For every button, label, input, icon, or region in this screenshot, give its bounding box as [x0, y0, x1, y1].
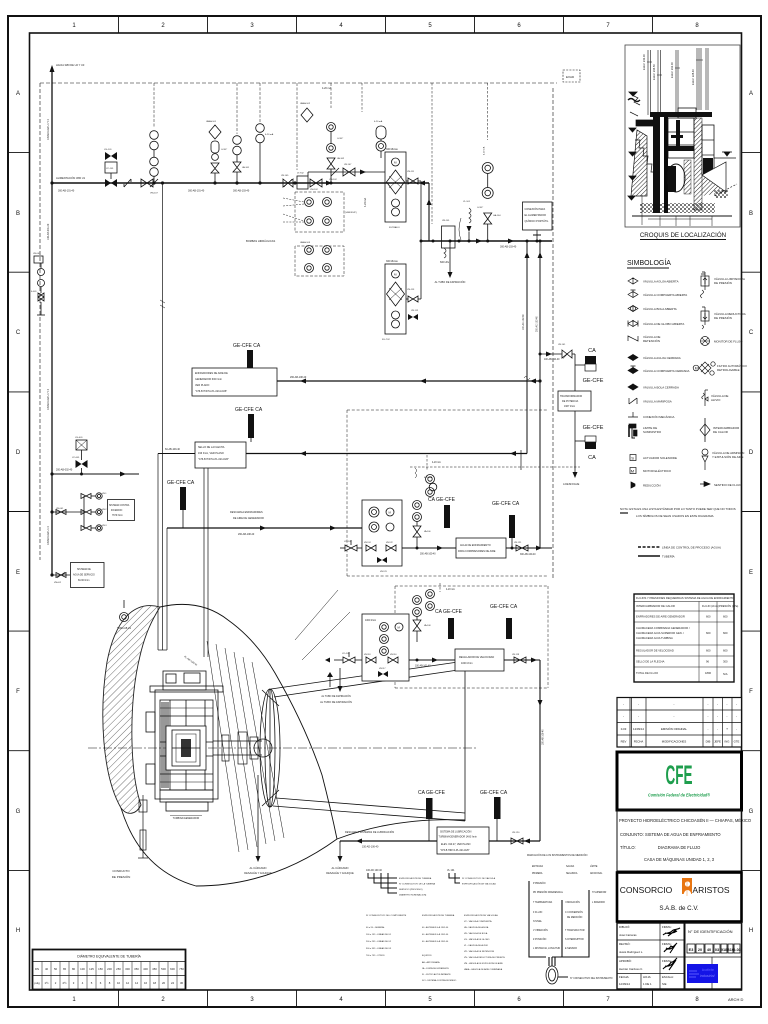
svg-text:A: A — [16, 91, 20, 97]
EXAD dashed box — [563, 70, 580, 82]
draft tube cone bottom — [273, 806, 465, 821]
enfriadores line H3 — [277, 380, 540, 382]
svg-text:LOS SÍMBOLOS DE SEAN USADOS EN: LOS SÍMBOLOS DE SEAN USADOS EN ESTE DIAG… — [636, 514, 714, 518]
svg-text:-: - — [638, 715, 639, 719]
svg-text:A: A — [749, 91, 753, 97]
fire system valves — [50, 493, 107, 531]
svg-text:VB-121: VB-121 — [514, 542, 522, 544]
diametro equivalente table — [33, 950, 186, 990]
svg-text:FECHA:: FECHA: — [619, 975, 629, 979]
svg-text:AB - ASTORGARA: AB - ASTORGARA — [422, 961, 440, 964]
svg-text:GE-CFE CA: GE-CFE CA — [235, 407, 263, 413]
svg-text:CA GE-CFE: CA GE-CFE — [428, 497, 456, 503]
svg-text:3: 3 — [250, 997, 254, 1003]
svg-text:TURBINA/GENERADOR: TURBINA/GENERADOR — [173, 817, 200, 820]
svg-text:12/09/14: 12/09/14 — [633, 727, 644, 731]
svg-text:CONDUCTO: CONDUCTO — [112, 869, 130, 873]
limite de suministro — [628, 425, 630, 437]
left instrument chains of pumps below module1 — [295, 241, 344, 276]
svg-text:2: 2 — [161, 23, 165, 29]
svg-text:18: 18 — [153, 981, 157, 985]
svg-text:DN: DN — [35, 967, 39, 971]
svg-text:VM-107: VM-107 — [150, 193, 158, 195]
grid letters left/right — [16, 91, 754, 934]
svg-text:SISTEMA CONTRA: SISTEMA CONTRA — [109, 504, 130, 507]
svg-text:SIMBOLOGÍA: SIMBOLOGÍA — [627, 258, 671, 267]
svg-text:SUMINISTRO: SUMINISTRO — [643, 430, 662, 434]
drain arrow 1 — [244, 775, 272, 875]
valvula compuerta abierta — [628, 290, 638, 298]
svg-text:REV: REV — [621, 740, 627, 744]
svg-text:DE AIRE DE GENERADOR: DE AIRE DE GENERADOR — [233, 517, 264, 520]
valvula bola cerrada — [628, 384, 638, 390]
svg-text:250: 250 — [116, 967, 121, 971]
arrow up hacia u2 y u3 — [50, 65, 55, 72]
svg-text:700 a 799 - OTROS: 700 a 799 - OTROS — [366, 955, 385, 957]
svg-text:G 3/4": G 3/4" — [477, 207, 483, 209]
svg-text:B: B — [16, 211, 20, 217]
svg-text:VÁLVULA BOLA ABIERTA: VÁLVULA BOLA ABIERTA — [643, 307, 677, 311]
svg-text:TOMA AB U1: TOMA AB U1 — [117, 627, 132, 630]
nota — [620, 507, 736, 518]
svg-text:M: M — [394, 273, 397, 277]
svg-text:CHUMACERA GUIA TURBINA: CHUMACERA GUIA TURBINA — [636, 636, 673, 640]
valvula de retencion — [628, 336, 638, 341]
svg-text:DE CALOR: DE CALOR — [713, 430, 728, 434]
svg-text:3: 3 — [250, 23, 254, 29]
H6 out — [506, 547, 552, 549]
svg-text:96: 96 — [706, 660, 709, 664]
transformer branch — [539, 344, 604, 486]
svg-text:350: 350 — [134, 967, 139, 971]
svg-text:L INFERIOR: L INFERIOR — [592, 902, 605, 904]
dim lines below — [642, 195, 712, 226]
svg-text:24: 24 — [171, 981, 175, 985]
supply pipe bundle into bulb — [158, 183, 167, 650]
svg-text:260-AB-108-40: 260-AB-108-40 — [290, 376, 307, 379]
left instrument cluster VB-001 — [31, 253, 45, 315]
svg-text:100-AC-102-40: 100-AC-102-40 — [522, 314, 525, 330]
sistema contra incendio box — [108, 500, 135, 521]
svg-text:Jesús Rodríguez L.: Jesús Rodríguez L. — [619, 950, 643, 954]
control boundary dashed left — [39, 83, 41, 560]
svg-text:200-AB-002-40: 200-AB-002-40 — [56, 469, 73, 472]
svg-text:F: F — [749, 689, 753, 695]
svg-text:José Carreras: José Carreras — [619, 933, 637, 937]
svg-text:ESPECIFICACIÓN DE VÁLVULAS: ESPECIFICACIÓN DE VÁLVULAS — [462, 883, 496, 886]
H2 arrows and label — [476, 239, 482, 244]
svg-text:1896: 1896 — [705, 671, 711, 675]
svg-text:0-03: 0-03 — [733, 948, 741, 952]
svg-text:VB-107: VB-107 — [344, 164, 352, 166]
svg-text:150-AD-106-40: 150-AD-106-40 — [362, 846, 379, 849]
svg-text:600 kPa: 600 kPa — [440, 261, 449, 264]
toma ab u1 instrument — [120, 613, 129, 622]
svg-text:VB-1: VB-1 — [102, 493, 107, 495]
svg-text:Comisión Federal de Electricid: Comisión Federal de Electricidad® — [648, 792, 710, 798]
riser chain VAEA-102 — [300, 83, 345, 185]
svg-text:I INDICACIÓN: I INDICACIÓN — [565, 901, 580, 904]
filter unit 2 — [382, 260, 421, 341]
svg-text:DE PRESIÓN: DE PRESIÓN — [714, 315, 732, 320]
svg-text:125: 125 — [89, 967, 94, 971]
svg-text:2: 2 — [161, 997, 165, 1003]
svg-text:VG-001: VG-001 — [75, 437, 83, 439]
svg-text:C: C — [16, 330, 21, 336]
svg-text:E SENSOR: E SENSOR — [565, 948, 577, 950]
svg-text:industrial: industrial — [700, 974, 715, 978]
svg-text:60-AB-109-40: 60-AB-109-40 — [165, 448, 181, 451]
svg-text:14: 14 — [135, 981, 139, 985]
svg-text:300 a 399 - LÍNEAS DE U3: 300 a 399 - LÍNEAS DE U3 — [366, 947, 392, 950]
svg-text:CA GE-CFE: CA GE-CFE — [418, 790, 446, 796]
svg-text:ALIMENTACIÓN 3/80 U1: ALIMENTACIÓN 3/80 U1 — [56, 175, 86, 180]
svg-text:600: 600 — [723, 649, 728, 653]
control boundary dashed bottom — [395, 586, 548, 688]
svg-text:UA-104: UA-104 — [493, 214, 501, 217]
main header pipe vertical — [51, 70, 53, 576]
svg-text:VÁLVULA MARIPOSA: VÁLVULA MARIPOSA — [643, 400, 672, 404]
svg-text:ELEV. 190.27, VER PLANO: ELEV. 190.27, VER PLANO — [441, 843, 471, 846]
svg-text:03: 03 — [715, 948, 719, 952]
svg-text:VG - VÁLVULA DE GLOBO: VG - VÁLVULA DE GLOBO — [464, 938, 490, 941]
process line H2 — [421, 240, 552, 242]
svg-text:D: D — [749, 450, 754, 456]
valvula reductora de presion — [701, 311, 709, 321]
dashed module area A — [347, 410, 548, 576]
left column labels — [643, 280, 689, 488]
riser x236 dashed instruments — [233, 83, 250, 185]
svg-text:12/09/14: 12/09/14 — [619, 982, 630, 986]
svg-text:A DESFOGUE: A DESFOGUE — [563, 483, 580, 486]
svg-text:VB-2: VB-2 — [102, 509, 107, 511]
svg-text:VB-116: VB-116 — [390, 654, 397, 656]
svg-text:-: - — [726, 715, 727, 719]
svg-text:300: 300 — [125, 967, 130, 971]
svg-text:ESCALA:: ESCALA: — [662, 975, 674, 979]
svg-text:G: G — [749, 809, 754, 815]
svg-text:-: - — [638, 702, 639, 706]
svg-text:AL TUBO DE ASPIRACIÓN: AL TUBO DE ASPIRACIÓN — [435, 281, 466, 284]
svg-text:GTE: GTE — [734, 740, 740, 744]
svg-text:pulg: pulg — [34, 981, 40, 985]
actuador solenoide — [630, 455, 636, 461]
small dim ticks top — [647, 60, 703, 75]
valve VC-101 with actuator VG-101 — [104, 149, 117, 187]
blue logo — [687, 964, 718, 983]
svg-text:VAEA - VÁLVULA DE AIRE COMBINA: VAEA - VÁLVULA DE AIRE COMBINADA — [464, 968, 503, 971]
svg-text:40 - ASTM A53 GrB CED 40: 40 - ASTM A53 GrB CED 40 — [422, 933, 449, 936]
svg-text:-: - — [717, 715, 718, 719]
proyecto text block — [617, 810, 742, 871]
drain arrow 2 — [326, 841, 354, 875]
svg-text:ENTRADA: ENTRADA — [532, 865, 543, 868]
svg-text:180-AB-106-40: 180-AB-106-40 — [542, 729, 545, 745]
svg-text:100 a 199 - LÍNEAS DE U1: 100 a 199 - LÍNEAS DE U1 — [366, 933, 392, 936]
svg-text:H: H — [749, 928, 753, 934]
svg-text:AL CÁRCAMO: AL CÁRCAMO — [249, 866, 266, 870]
svg-text:VÁLVULA DE GLOBO ABIERTA: VÁLVULA DE GLOBO ABIERTA — [643, 322, 684, 326]
svg-text:100: 100 — [80, 967, 85, 971]
svg-text:100-AB-101-40: 100-AB-101-40 — [415, 665, 431, 668]
right bracket — [556, 890, 589, 957]
flujos y presiones table — [634, 594, 734, 682]
long return riser — [539, 660, 541, 841]
svg-text:D: D — [16, 450, 21, 456]
sello return riser from H4 — [520, 450, 522, 470]
svg-text:DESCARGA ENFRIADORES: DESCARGA ENFRIADORES — [230, 511, 263, 514]
svg-text:S INTERRUPTOR: S INTERRUPTOR — [565, 939, 584, 941]
svg-text:-: - — [707, 715, 708, 719]
svg-text:AL CÁRCAMO: AL CÁRCAMO — [331, 866, 348, 870]
svg-text:ESPECIFICACIÓN DE VÁLVULAS: ESPECIFICACIÓN DE VÁLVULAS — [464, 914, 498, 917]
riser x254 motor pump — [256, 83, 274, 185]
sello line H4 — [158, 453, 195, 455]
svg-text:2½: 2½ — [63, 981, 68, 985]
svg-text:PL-NE-129-40: PL-NE-129-40 — [183, 655, 198, 667]
svg-text:EXAD: EXAD — [566, 75, 575, 79]
svg-text:VA-108: VA-108 — [424, 624, 431, 627]
svg-text:VN-111: VN-111 — [407, 171, 415, 173]
grid numbers top/bottom — [72, 23, 699, 1003]
tailwater level symbol — [714, 152, 736, 158]
svg-text:MODIFICACIONES: MODIFICACIONES — [662, 740, 687, 744]
svg-text:VB-118: VB-118 — [364, 654, 371, 656]
svg-text:VB-120: VB-120 — [512, 832, 520, 834]
svg-text:20: 20 — [698, 948, 702, 952]
risers to H3 — [522, 240, 543, 549]
signatures scribbles — [663, 928, 680, 970]
svg-text:T TEMPERATURA: T TEMPERATURA — [533, 901, 553, 904]
sistema agua servicio box — [50, 563, 104, 588]
dashed module area B — [395, 586, 548, 688]
svg-text:SCI - SISTEMA CONTRA INCENDIO: SCI - SISTEMA CONTRA INCENDIO — [422, 979, 457, 982]
svg-text:300: 300 — [723, 660, 728, 664]
chain x487 with G3/4 — [477, 83, 501, 243]
svg-text:DIB: DIB — [706, 740, 711, 744]
svg-text:GE-CFE CA: GE-CFE CA — [490, 604, 518, 610]
svg-text:"CHI-B HID7A-PL-021-D26": "CHI-B HID7A-PL-021-D26" — [198, 458, 229, 461]
casing top outline — [160, 604, 337, 839]
component list column 1 — [366, 915, 407, 957]
svg-text:VAEA-103: VAEA-103 — [300, 241, 311, 244]
al tubo de aspiracion (draft tube) — [320, 672, 352, 704]
svg-text:12: 12 — [126, 981, 130, 985]
svg-text:SEGUNDA: SEGUNDA — [566, 872, 578, 875]
svg-text:VÁLVULA AGUJA CERRADA: VÁLVULA AGUJA CERRADA — [643, 356, 681, 360]
svg-text:0-03: 0-03 — [621, 727, 627, 731]
svg-text:INTERCAMBIADOR DE CALOR: INTERCAMBIADOR DE CALOR — [636, 604, 675, 608]
svg-text:CA: CA — [588, 455, 596, 461]
svg-text:CONEXIÓN PARA: CONEXIÓN PARA — [525, 208, 546, 211]
svg-text:HOJA:: HOJA: — [643, 975, 651, 979]
main supply line H1 — [52, 182, 429, 184]
svg-text:750: 750 — [179, 967, 184, 971]
svg-text:FECHA: FECHA — [634, 740, 644, 744]
svg-text:4-20 mA: 4-20 mA — [446, 588, 455, 591]
component list column 2 — [422, 914, 457, 982]
svg-text:196 l/min, VER PLANO: 196 l/min, VER PLANO — [198, 452, 224, 455]
valve VO-103 — [325, 652, 362, 663]
svg-text:TURBINA/GENERADOR 1400 l/min: TURBINA/GENERADOR 1400 l/min — [439, 836, 478, 839]
svg-text:N° CONSECUTIVO DE LA TUBERÍA: N° CONSECUTIVO DE LA TUBERÍA — [399, 883, 436, 886]
svg-text:LÍNEA DE CONTROL DE PROCESO (A: LÍNEA DE CONTROL DE PROCESO (AGUA) — [662, 546, 721, 550]
svg-text:FIRMA:: FIRMA: — [662, 925, 672, 929]
svg-text:DIÁMETRO EQUIVALENTE DE TUBERÍ: DIÁMETRO EQUIVALENTE DE TUBERÍA — [77, 955, 141, 959]
svg-text:1: 1 — [72, 23, 76, 29]
svg-text:VA-106: VA-106 — [424, 530, 431, 533]
svg-text:ESPECIFICACIÓN DE TUBERÍA: ESPECIFICACIÓN DE TUBERÍA — [422, 914, 455, 917]
valve VO-102 — [340, 540, 362, 551]
conexion mecanica — [628, 412, 638, 417]
svg-text:ELEV. 243.00: ELEV. 243.00 — [642, 54, 646, 70]
svg-text:50: 50 — [54, 967, 58, 971]
svg-text:Z POSICIÓN: Z POSICIÓN — [533, 938, 547, 941]
rotated tiny annotations — [642, 54, 695, 85]
svg-text:VB-122: VB-122 — [386, 542, 394, 544]
svg-text:-: - — [717, 702, 718, 706]
svg-text:MARCACIÓN DE LOS INSTRUMENTOS: MARCACIÓN DE LOS INSTRUMENTOS DE MEDICIÓ… — [527, 854, 588, 857]
svg-text:S/E: S/E — [662, 982, 667, 986]
svg-text:AL TUBO DE ASPIRACIÓN: AL TUBO DE ASPIRACIÓN — [321, 695, 351, 698]
valvula de alivio — [702, 390, 708, 406]
svg-text:1 DE 1: 1 DE 1 — [643, 982, 652, 986]
svg-text:GE-CFE: GE-CFE — [583, 378, 604, 384]
svg-text:ELEV. 232.00: ELEV. 232.00 — [670, 62, 674, 78]
left column symbols — [628, 278, 638, 488]
svg-text:ING: ING — [725, 740, 730, 744]
croquis de localizacion box — [625, 45, 740, 227]
svg-text:200: 200 — [107, 967, 112, 971]
svg-text:AGUA DE ENFRIAMIENTO: AGUA DE ENFRIAMIENTO — [460, 544, 491, 547]
svg-text:200 a 299 - LÍNEAS DE U2: 200 a 299 - LÍNEAS DE U2 — [366, 940, 392, 943]
svg-text:VC-101: VC-101 — [106, 168, 114, 170]
svg-text:VM-102: VM-102 — [310, 189, 318, 191]
svg-text:N/A: N/A — [723, 672, 728, 676]
svg-text:VL-101: VL-101 — [463, 201, 471, 203]
svg-text:00 a 99 - GENERAL: 00 a 99 - GENERAL — [366, 926, 386, 929]
svg-text:ALIVIO: ALIVIO — [711, 398, 721, 402]
filtro automatico retrolavable — [699, 362, 711, 374]
svg-text:VC-001: VC-001 — [72, 457, 80, 459]
svg-text:-: - — [708, 727, 709, 731]
revision table — [617, 698, 742, 748]
svg-text:300 Micras: 300 Micras — [386, 148, 398, 151]
svg-text:(VERIF/UP): (VERIF/UP) — [345, 212, 357, 214]
svg-text:VB-001: VB-001 — [33, 253, 41, 255]
pipe tag nomenclature stub 1 — [366, 869, 436, 897]
svg-text:DE PRESIÓN: DE PRESIÓN — [112, 874, 131, 879]
svg-text:-: - — [736, 715, 737, 719]
svg-text:600: 600 — [706, 631, 711, 635]
turbine pit circle — [667, 164, 685, 192]
svg-text:ACTUADOR SOLENOIDE: ACTUADOR SOLENOIDE — [643, 456, 677, 460]
svg-text:300 Micras: 300 Micras — [386, 260, 398, 263]
left fire system rows — [50, 437, 139, 477]
svg-text:DIBUJÓ:: DIBUJÓ: — [619, 924, 630, 929]
svg-text:-: - — [623, 702, 624, 706]
svg-text:TRANSFORMADOR: TRANSFORMADOR — [560, 395, 582, 398]
svg-text:VM-102: VM-102 — [329, 179, 337, 181]
conexion quimico box — [523, 202, 553, 243]
valve tag nomenclature stub 2 — [447, 869, 496, 886]
svg-text:TÍTULO:: TÍTULO: — [620, 845, 636, 850]
svg-text:DESAGÜE Y ACHIQUE: DESAGÜE Y ACHIQUE — [326, 871, 354, 875]
svg-text:DESCARGA SISTEMAS DE LUBRICACI: DESCARGA SISTEMAS DE LUBRICACIÓN — [345, 831, 394, 834]
runner hub and blades — [254, 689, 280, 807]
svg-text:FL - FILTRO AUTOLIMPIANTE: FL - FILTRO AUTOLIMPIANTE — [422, 973, 451, 976]
svg-text:bufete: bufete — [702, 967, 715, 972]
svg-text:SISTEMA DE LUBRICACIÓN: SISTEMA DE LUBRICACIÓN — [440, 831, 472, 834]
svg-text:DIAGRAMA DE FLUJO: DIAGRAMA DE FLUJO — [658, 845, 701, 850]
svg-text:N° CONSECUTIVO DE VÁLVULA: N° CONSECUTIVO DE VÁLVULA — [462, 877, 496, 880]
intake hatched crescent — [103, 606, 160, 814]
CFE logo block — [617, 752, 742, 810]
svg-text:4-20 mA: 4-20 mA — [374, 120, 383, 123]
line to compressor box H6 — [402, 547, 456, 549]
monitor de flujo — [701, 337, 710, 346]
heavy central structure — [650, 108, 726, 213]
sistema lubricacion box — [437, 827, 489, 854]
svg-text:VC - VÁLVULA COMPUERTA: VC - VÁLVULA COMPUERTA — [464, 920, 492, 923]
descarga enfriadores line H5 — [167, 527, 362, 529]
svg-text:REVISÓ:: REVISÓ: — [619, 941, 631, 946]
svg-text:REGULADOR DE VELOCIDAD: REGULADOR DE VELOCIDAD — [636, 649, 674, 653]
svg-text:SELLO DE LA FLECHA: SELLO DE LA FLECHA — [198, 446, 225, 449]
compressor water box — [456, 538, 506, 558]
svg-text:VÁLVULA AGUJA ABIERTA: VÁLVULA AGUJA ABIERTA — [643, 280, 679, 284]
svg-text:CHUMACERA COMBINADA GENERADOR: CHUMACERA COMBINADA GENERADOR / — [636, 626, 690, 630]
svg-text:10: 10 — [117, 981, 121, 985]
svg-text:VA-102: VA-102 — [337, 157, 345, 160]
svg-text:DIÁMETRO NOMINAL (DN): DIÁMETRO NOMINAL (DN) — [399, 894, 427, 897]
svg-text:PRIMERA: PRIMERA — [532, 872, 543, 875]
svg-text:1967 l/min: 1967 l/min — [564, 405, 576, 408]
svg-text:FIL-T02: FIL-T02 — [382, 339, 390, 341]
enfriadores box — [192, 368, 277, 396]
svg-text:VG-101: VG-101 — [104, 149, 112, 151]
svg-text:4-20 mA: 4-20 mA — [322, 87, 331, 90]
spillway icons left — [628, 92, 640, 200]
svg-text:16: 16 — [144, 981, 148, 985]
svg-text:VB-112: VB-112 — [411, 310, 419, 312]
svg-text:VB-105: VB-105 — [281, 175, 289, 177]
left bracket — [529, 881, 546, 957]
relief valve VL-101 — [459, 201, 472, 243]
svg-text:40 - ASTM A53 GrB CED 40: 40 - ASTM A53 GrB CED 40 — [422, 940, 449, 943]
svg-text:PD PRESIÓN DIFERENCIAL: PD PRESIÓN DIFERENCIAL — [533, 891, 564, 894]
control boundary dashed right — [552, 88, 554, 578]
svg-text:DE PRESIÓN: DE PRESIÓN — [714, 280, 732, 285]
svg-text:HACIA 3/80 DE U2 Y U3: HACIA 3/80 DE U2 Y U3 — [56, 63, 85, 67]
instrument chain above module3 — [413, 583, 456, 642]
svg-text:REGULADOR DE VELOCIDAD: REGULADOR DE VELOCIDAD — [459, 656, 494, 659]
sentido de flujo — [700, 483, 707, 485]
svg-text:20: 20 — [162, 981, 166, 985]
svg-text:INCENDIO: INCENDIO — [111, 510, 122, 512]
svg-text:VA-101: VA-101 — [242, 166, 250, 169]
svg-text:VL - VÁLVULA DE ALIVIO: VL - VÁLVULA DE ALIVIO — [464, 944, 488, 947]
svg-text:300-AB-100-40: 300-AB-100-40 — [520, 553, 536, 556]
svg-text:J5 T02: J5 T02 — [297, 173, 304, 175]
svg-text:REDUCCIÓN: REDUCCIÓN — [643, 483, 661, 488]
svg-text:4-20 mA: 4-20 mA — [265, 133, 274, 136]
svg-text:QUÍMICO PORTÁTIL: QUÍMICO PORTÁTIL — [525, 220, 549, 223]
svg-text:C: C — [749, 330, 754, 336]
riser instruments x152 — [150, 83, 159, 195]
svg-text:-: - — [673, 702, 674, 706]
svg-text:"CHI-B HID7A-PL-021-D26": "CHI-B HID7A-PL-021-D26" — [440, 849, 470, 852]
